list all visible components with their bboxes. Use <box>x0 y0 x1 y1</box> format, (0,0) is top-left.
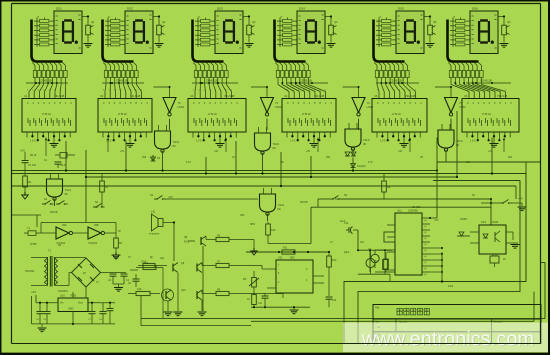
svg-text:U9A: U9A <box>62 224 67 227</box>
crystal Y1 <box>28 231 36 236</box>
svg-text:74LS48: 74LS48 <box>314 94 325 98</box>
svg-text:1 6 2 7: 1 6 2 7 <box>470 140 478 143</box>
NAND gate U8C 74LS00 <box>345 129 361 147</box>
title block 数字电子钟 <box>373 305 541 344</box>
svg-text:1M: 1M <box>58 245 61 247</box>
svg-text:Q11: Q11 <box>160 257 165 260</box>
svg-text:4.7K: 4.7K <box>368 162 373 164</box>
svg-text:LS1: LS1 <box>151 211 156 214</box>
inverter U7C 74LS04 <box>352 98 365 113</box>
svg-text:Q1: Q1 <box>91 20 95 24</box>
svg-text:74LS48: 74LS48 <box>405 94 416 98</box>
resistor R8 <box>382 181 387 192</box>
svg-text:TRANS1: TRANS1 <box>25 270 35 273</box>
svg-text:+5V: +5V <box>488 151 493 153</box>
svg-text:Title: Title <box>375 307 380 310</box>
svg-text:U3: U3 <box>190 94 194 98</box>
svg-text:C12: C12 <box>332 300 337 302</box>
NAND gate U8E 74LS00 <box>47 179 63 197</box>
IC U5 74LS48 BCD decoder <box>372 99 427 133</box>
svg-text:S1(AM): S1(AM) <box>357 165 366 168</box>
svg-text:U11: U11 <box>278 256 283 260</box>
svg-text:LS04: LS04 <box>178 105 185 109</box>
display DS5 with resistor pack RP5, driver Q5 <box>374 20 405 62</box>
svg-text:U9B: U9B <box>94 225 99 227</box>
switch S5 S6 row <box>500 202 503 204</box>
IC U2 74LS48 BCD decoder <box>98 99 152 133</box>
svg-text:U5: U5 <box>374 94 378 98</box>
svg-text:CD4511B: CD4511B <box>40 79 52 83</box>
svg-text:LT BI LE: LT BI LE <box>302 114 311 116</box>
IC U12 CD4060 <box>395 213 422 275</box>
svg-text:+5V: +5V <box>398 151 403 153</box>
wire routing to title block <box>344 174 526 344</box>
svg-text:10K: 10K <box>137 288 142 291</box>
svg-text:1 6 2 7: 1 6 2 7 <box>196 140 204 143</box>
svg-text:LS04: LS04 <box>367 105 374 109</box>
buzzer B1 circuit <box>358 249 392 251</box>
svg-text:32768: 32768 <box>30 244 37 246</box>
transistor Q11, resistor R9, capacitor C9 <box>172 264 174 272</box>
svg-text:LS04: LS04 <box>275 105 282 109</box>
IC U4 74LS48 BCD decoder <box>282 99 336 133</box>
svg-text:LS04: LS04 <box>459 105 466 109</box>
svg-text:RP: RP <box>243 278 247 281</box>
inverter U7D 74LS04 <box>445 98 458 113</box>
svg-text:Vout: Vout <box>78 302 83 305</box>
svg-text:R10: R10 <box>142 157 147 159</box>
svg-text:Q5: Q5 <box>433 20 437 24</box>
svg-text:4N25: 4N25 <box>492 220 499 224</box>
svg-text:R11: R11 <box>283 247 288 250</box>
transistor Q8 resistor R6 <box>200 237 202 245</box>
NAND gate U8D 74LS00 <box>438 130 454 148</box>
IC U6 74LS48 BCD decoder <box>462 99 519 133</box>
svg-text:CD4511B: CD4511B <box>300 79 312 83</box>
svg-text:R13: R13 <box>332 259 337 262</box>
svg-text:00: 00 <box>363 142 367 146</box>
svg-text:R14: R14 <box>508 157 513 159</box>
svg-text:Q6: Q6 <box>507 20 511 24</box>
svg-text:CD4060: CD4060 <box>412 207 421 209</box>
diode D1 below gate U8A <box>152 155 154 161</box>
svg-text:+5V: +5V <box>306 151 311 153</box>
IC U11 555 timer <box>276 260 313 293</box>
resistor R2 <box>100 181 105 192</box>
watermark www.entronics.com <box>343 323 550 353</box>
svg-text:C1 103: C1 103 <box>28 164 37 167</box>
svg-text:R9 1K: R9 1K <box>30 155 37 157</box>
svg-text:Q4: Q4 <box>334 20 338 24</box>
svg-text:R10: R10 <box>271 229 276 232</box>
svg-text:9013: 9013 <box>184 242 190 244</box>
svg-text:U1: U1 <box>24 94 28 98</box>
svg-text:CD4060: CD4060 <box>408 209 418 213</box>
svg-text:SW-PB: SW-PB <box>300 202 308 204</box>
svg-text:555: 555 <box>290 256 295 260</box>
diodes D2 D3 alarm logic <box>352 149 354 152</box>
svg-text:100K: 100K <box>141 262 147 264</box>
display DS3 with resistor pack RP3, driver Q3 <box>193 20 224 62</box>
IC U1 74LS48 BCD decoder <box>22 99 76 133</box>
svg-text:SPEAKER: SPEAKER <box>149 233 160 236</box>
svg-text:R12: R12 <box>326 157 331 159</box>
switch S4 <box>154 198 157 200</box>
display DS1 with resistor pack RP1, driver Q1 <box>32 20 63 62</box>
display DS6 with resistor pack RP6, driver Q6 <box>448 20 479 62</box>
svg-text:Q10: Q10 <box>181 289 186 292</box>
svg-text:1 6 2 7: 1 6 2 7 <box>380 140 388 143</box>
wire vertical links <box>436 138 438 171</box>
svg-text:22uF: 22uF <box>340 221 346 223</box>
svg-text:4.7K: 4.7K <box>186 162 191 164</box>
svg-text:10uF: 10uF <box>448 286 454 288</box>
svg-text:DS2: DS2 <box>127 7 133 11</box>
capacitor C13 <box>346 229 349 231</box>
svg-text:74LS04: 74LS04 <box>88 241 98 245</box>
svg-text:00: 00 <box>65 192 69 196</box>
svg-text:+5V: +5V <box>120 151 125 153</box>
svg-text:DS3: DS3 <box>217 7 223 11</box>
svg-text:DS1: DS1 <box>56 7 62 11</box>
svg-text:LT BI LE: LT BI LE <box>392 114 401 116</box>
resistor R10 below gate U8F <box>266 224 271 235</box>
svg-text:74LS48: 74LS48 <box>497 94 508 98</box>
svg-text:00: 00 <box>173 144 177 148</box>
NAND gate U8F 74LS00 <box>260 194 276 212</box>
svg-text:U4: U4 <box>284 94 288 98</box>
svg-text:1K: 1K <box>247 298 250 301</box>
svg-text:+5V: +5V <box>31 290 36 294</box>
svg-text:U12: U12 <box>397 209 402 213</box>
svg-text:SW-PB: SW-PB <box>50 212 58 214</box>
svg-text:D1N4001: D1N4001 <box>58 291 68 293</box>
speaker LS1 <box>158 219 163 227</box>
svg-text:+5V: +5V <box>518 197 523 201</box>
svg-text:Q2: Q2 <box>162 20 166 24</box>
svg-text:DS4: DS4 <box>299 7 305 11</box>
svg-text:DS6: DS6 <box>472 7 478 11</box>
inverter U7A 74LS04 <box>163 98 176 113</box>
svg-text:U8F: U8F <box>240 215 245 217</box>
svg-text:10K: 10K <box>466 162 471 164</box>
transistor Q7 with resistor R5 <box>136 291 150 295</box>
NAND gate U8A 74LS00 <box>155 131 171 149</box>
NAND gate U8B 74LS00 <box>255 133 271 151</box>
svg-text:CD4511B: CD4511B <box>390 79 402 83</box>
svg-text:1 6 2 7: 1 6 2 7 <box>106 140 114 143</box>
ground arrow near Q8 <box>253 248 255 251</box>
svg-text:74LS48: 74LS48 <box>54 94 65 98</box>
svg-text:1 6 2 7: 1 6 2 7 <box>290 140 298 143</box>
svg-text:U2: U2 <box>100 94 104 98</box>
svg-text:74LS48: 74LS48 <box>130 94 141 98</box>
svg-text:www.entronics.com: www.entronics.com <box>361 329 534 351</box>
top rail with resistor R11 <box>246 251 330 253</box>
potentiometer RP1 <box>249 278 259 286</box>
transistor Q9 resistor R7 <box>196 264 198 272</box>
display DS4 with resistor pack RP4, driver Q4 <box>275 20 306 62</box>
resistor R13 capacitor C12 <box>327 256 332 267</box>
inverter U7B 74LS04 <box>261 98 274 113</box>
svg-text:00: 00 <box>278 207 282 211</box>
oscillator inverters U9A U9B, resistor R3 <box>56 227 69 239</box>
sheet border frame <box>0 0 550 2</box>
crystal Y2 and resistor R14 <box>371 254 379 262</box>
svg-text:CD4511B: CD4511B <box>116 79 128 83</box>
svg-text:C13: C13 <box>344 223 349 225</box>
svg-text:NPN: NPN <box>250 224 255 226</box>
switches S2 S3 <box>42 203 45 205</box>
regulator U10 7805 <box>58 298 88 312</box>
svg-text:GND: GND <box>68 308 74 311</box>
svg-text:74LS48: 74LS48 <box>224 94 235 98</box>
svg-text:+5V: +5V <box>20 149 25 153</box>
transistor Q10 resistor R8 <box>196 291 198 299</box>
resistor R4 510 <box>143 265 156 269</box>
capacitor C2 near U1 <box>60 153 67 159</box>
wire horizontal buses <box>12 170 438 172</box>
bridge rectifier D4 <box>72 258 101 287</box>
resistor R12, capacitor C11, ground <box>252 295 257 305</box>
svg-text:LT BI LE: LT BI LE <box>42 114 51 116</box>
filter capacitors C5-C8 <box>39 303 41 311</box>
svg-text:DS5: DS5 <box>398 7 404 11</box>
svg-text:CD4511B: CD4511B <box>206 79 218 83</box>
svg-text:22pF: 22pF <box>344 252 350 254</box>
svg-text:10K: 10K <box>280 162 285 164</box>
diode D5 to optocoupler <box>457 235 470 237</box>
svg-text:U6: U6 <box>464 94 468 98</box>
svg-text:12MHz: 12MHz <box>460 219 468 221</box>
svg-text:+5V: +5V <box>214 151 219 153</box>
IC U3 74LS48 BCD decoder <box>188 99 246 133</box>
svg-text:CD4511B: CD4511B <box>480 79 492 83</box>
svg-text:+5V: +5V <box>168 195 173 199</box>
svg-text:00: 00 <box>273 146 277 150</box>
svg-text:Q3: Q3 <box>252 20 256 24</box>
svg-text:00: 00 <box>456 143 460 147</box>
svg-text:+5V: +5V <box>434 219 439 222</box>
svg-text:U13: U13 <box>481 220 486 224</box>
display DS2 with resistor pack RP2, driver Q2 <box>103 20 134 62</box>
svg-text:1 6 2 7: 1 6 2 7 <box>30 140 38 143</box>
svg-text:74LS: 74LS <box>60 165 66 167</box>
svg-text:LT BI LE: LT BI LE <box>118 114 127 116</box>
optocoupler U13 <box>479 225 506 254</box>
svg-text:LT BI LE: LT BI LE <box>482 114 491 116</box>
svg-text:U10: U10 <box>60 294 65 298</box>
svg-text:LT BI LE: LT BI LE <box>208 114 217 116</box>
capacitors C3 C4, ground <box>115 252 117 255</box>
